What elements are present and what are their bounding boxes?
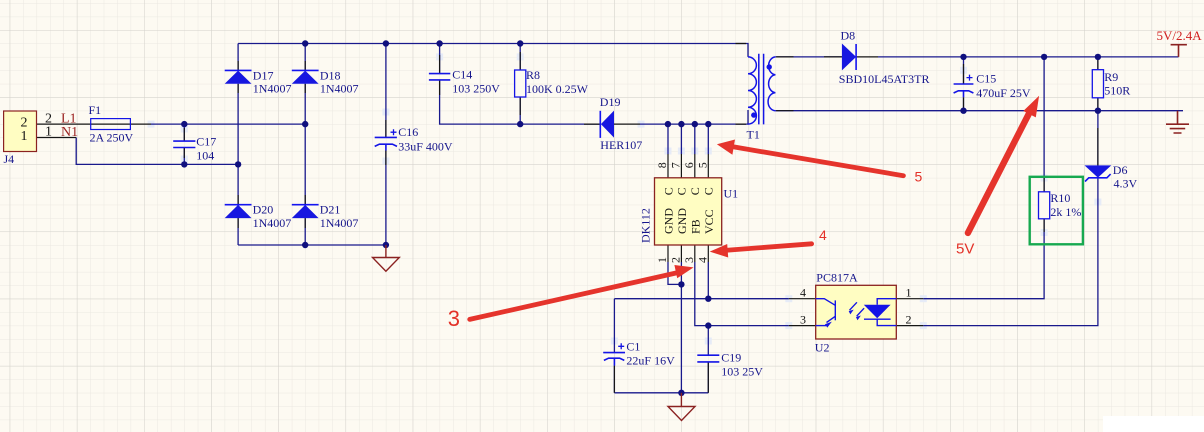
svg-text:5: 5	[695, 162, 709, 168]
svg-text:HER107: HER107	[600, 138, 642, 152]
svg-text:D21: D21	[320, 203, 341, 217]
svg-text:5: 5	[915, 169, 923, 185]
svg-text:C: C	[688, 187, 702, 195]
svg-text:104: 104	[196, 149, 214, 163]
svg-text:8: 8	[655, 162, 669, 168]
svg-text:103 25V: 103 25V	[721, 365, 763, 379]
svg-text:GND: GND	[675, 208, 689, 234]
svg-text:470uF 25V: 470uF 25V	[976, 86, 1031, 100]
svg-text:F1: F1	[89, 103, 102, 117]
svg-text:4: 4	[695, 257, 709, 263]
svg-text:510R: 510R	[1104, 84, 1130, 98]
svg-text:D20: D20	[253, 203, 274, 217]
svg-text:R9: R9	[1104, 70, 1118, 84]
svg-text:22uF 16V: 22uF 16V	[626, 353, 675, 367]
svg-text:R8: R8	[526, 68, 540, 82]
svg-text:C19: C19	[721, 350, 741, 364]
svg-text:3: 3	[448, 306, 460, 331]
svg-text:GND: GND	[662, 208, 676, 234]
svg-text:U1: U1	[724, 187, 739, 201]
svg-text:2: 2	[668, 257, 682, 263]
svg-text:1N4007: 1N4007	[320, 216, 359, 230]
svg-text:D17: D17	[253, 68, 274, 82]
svg-text:4: 4	[800, 286, 806, 300]
svg-text:C: C	[675, 187, 689, 195]
svg-text:4.3V: 4.3V	[1114, 177, 1138, 191]
svg-text:C17: C17	[196, 134, 216, 148]
svg-text:2k 1%: 2k 1%	[1050, 205, 1081, 219]
svg-text:C16: C16	[398, 125, 418, 139]
svg-text:VCC: VCC	[702, 209, 716, 234]
svg-text:FB: FB	[688, 219, 702, 234]
svg-text:1N4007: 1N4007	[253, 216, 292, 230]
svg-text:D19: D19	[600, 95, 621, 109]
svg-text:1: 1	[45, 125, 52, 140]
svg-text:1N4007: 1N4007	[320, 82, 359, 96]
svg-text:SBD10L45AT3TR: SBD10L45AT3TR	[839, 72, 930, 86]
svg-text:2: 2	[906, 312, 912, 326]
svg-text:N1: N1	[61, 125, 78, 140]
svg-text:C1: C1	[626, 339, 640, 353]
svg-text:C15: C15	[976, 71, 996, 85]
svg-text:4: 4	[819, 227, 827, 243]
svg-text:3: 3	[800, 312, 806, 326]
svg-text:2A 250V: 2A 250V	[90, 131, 134, 145]
svg-text:1N4007: 1N4007	[253, 82, 292, 96]
svg-text:1: 1	[655, 257, 669, 263]
svg-text:J4: J4	[4, 152, 15, 166]
svg-text:6: 6	[682, 162, 696, 168]
svg-text:L1: L1	[61, 111, 77, 126]
svg-text:C: C	[661, 187, 675, 195]
svg-text:C14: C14	[452, 67, 472, 81]
svg-text:R10: R10	[1050, 191, 1070, 205]
svg-text:PC817A: PC817A	[816, 271, 858, 285]
svg-text:5V: 5V	[956, 241, 974, 258]
svg-text:7: 7	[668, 162, 682, 168]
svg-text:3: 3	[682, 257, 696, 263]
svg-text:U2: U2	[815, 341, 830, 355]
svg-text:DK112: DK112	[639, 208, 653, 243]
svg-text:100K 0.25W: 100K 0.25W	[526, 82, 589, 96]
svg-text:33uF 400V: 33uF 400V	[398, 139, 453, 153]
svg-text:C: C	[702, 187, 716, 195]
svg-text:1: 1	[906, 286, 912, 300]
svg-text:T1: T1	[747, 128, 760, 142]
svg-text:D6: D6	[1113, 163, 1128, 177]
svg-text:D8: D8	[841, 29, 856, 43]
svg-text:1: 1	[21, 129, 28, 144]
svg-text:103 250V: 103 250V	[452, 82, 500, 96]
svg-text:D18: D18	[320, 68, 341, 82]
svg-text:5V/2.4A: 5V/2.4A	[1157, 28, 1203, 43]
